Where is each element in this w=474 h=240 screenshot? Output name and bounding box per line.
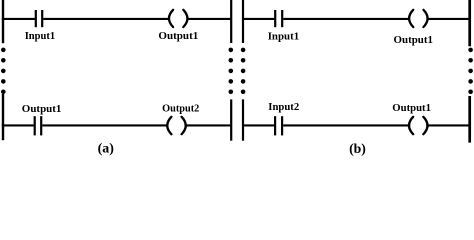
left power rail of (b), top segment bbox=[242, 0, 244, 43]
left rail (b) continuation dots bbox=[241, 48, 246, 94]
coil Output1 (b top rung) bbox=[409, 10, 428, 27]
wire rung2(b) contact to coil bbox=[283, 124, 410, 126]
svg-text:Output1: Output1 bbox=[22, 103, 62, 115]
left power rail of (b), bottom segment bbox=[242, 99, 244, 140]
left rail continuation dots bbox=[1, 48, 6, 94]
wire rung2(a) contact to coil bbox=[42, 124, 167, 126]
svg-text:(b): (b) bbox=[349, 142, 366, 157]
wire rung1(a) contact to coil bbox=[43, 18, 169, 20]
contact Input1 (b top rung) bbox=[274, 10, 283, 27]
contact Output1 (a bottom rung) bbox=[34, 116, 43, 135]
contact Input1 (a top rung) bbox=[35, 10, 44, 27]
coil Output1 (a top rung) bbox=[169, 10, 188, 27]
svg-text:Output1: Output1 bbox=[392, 102, 431, 114]
svg-text:Input2: Input2 bbox=[268, 101, 299, 113]
wire rung1(b) coil to right rail bbox=[427, 18, 468, 20]
contact Input2 (b bottom rung) bbox=[274, 116, 283, 135]
right rail (a) continuation dots bbox=[229, 48, 234, 94]
right rail (b) continuation dots bbox=[468, 48, 473, 94]
wire rung1(a) coil to right rail bbox=[187, 18, 230, 20]
wire rung2(b) from rail to contact bbox=[244, 124, 274, 126]
wire rung1(a) from rail to contact bbox=[2, 18, 35, 20]
right power rail of (b), bottom segment bbox=[468, 96, 471, 143]
right power rail of (b), top segment bbox=[468, 0, 471, 46]
wire rung2(a) coil to right rail bbox=[185, 124, 230, 126]
left power rail of (a), bottom segment bbox=[2, 94, 4, 140]
wire rung2(b) coil to right rail bbox=[426, 124, 468, 126]
svg-text:Output1: Output1 bbox=[158, 30, 198, 42]
left power rail of (a), top segment bbox=[2, 0, 4, 43]
svg-text:Output1: Output1 bbox=[394, 34, 434, 46]
wire rung1(b) contact to coil bbox=[283, 18, 409, 20]
wire rung1(b) from rail to contact bbox=[244, 18, 274, 20]
coil Output1 (b bottom rung) bbox=[409, 117, 428, 134]
right power rail of (a), top segment bbox=[230, 0, 232, 43]
svg-text:(a): (a) bbox=[98, 142, 115, 157]
svg-text:Input1: Input1 bbox=[25, 30, 55, 42]
wire rung2(a) from rail to contact bbox=[2, 124, 34, 126]
svg-text:Output2: Output2 bbox=[162, 103, 200, 115]
svg-text:Input1: Input1 bbox=[268, 31, 300, 43]
right power rail of (a), bottom segment bbox=[230, 99, 232, 140]
coil Output2 (a bottom rung) bbox=[167, 117, 186, 134]
